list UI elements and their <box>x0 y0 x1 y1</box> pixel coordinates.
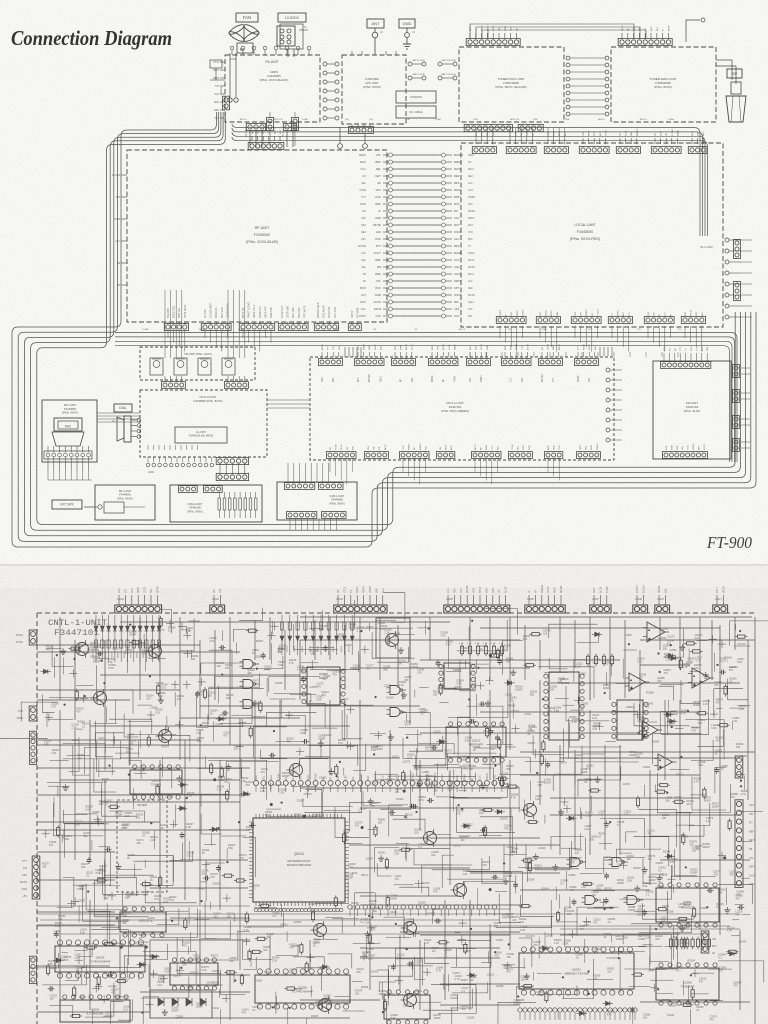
wire <box>275 992 277 1015</box>
wire <box>515 875 517 894</box>
resistor <box>693 909 696 917</box>
ground <box>644 867 646 870</box>
resistor <box>524 985 532 988</box>
wire <box>309 940 311 970</box>
wire <box>200 1017 350 1019</box>
wire <box>229 617 231 745</box>
bundle CNTL-U to CON-1 <box>287 463 289 483</box>
svg-text:CTL3: CTL3 <box>343 586 346 593</box>
svg-text:BPF: BPF <box>432 345 434 350</box>
svg-text:1000P: 1000P <box>690 872 698 875</box>
capacitor <box>391 965 396 967</box>
svg-text:TX3: TX3 <box>215 86 220 88</box>
svg-text:12BL: 12BL <box>533 119 539 121</box>
svg-text:(J7): (J7) <box>678 329 682 331</box>
svg-text:R2076: R2076 <box>559 762 567 765</box>
wire <box>360 947 500 949</box>
wire <box>580 833 582 849</box>
svg-text:DAT: DAT <box>215 93 220 96</box>
svg-text:Q2065: Q2065 <box>432 908 440 911</box>
wire <box>254 907 277 909</box>
diode <box>580 1011 584 1015</box>
wire <box>498 1002 536 1024</box>
resistor <box>691 990 694 998</box>
svg-text:C2032: C2032 <box>667 1014 675 1017</box>
svg-text:10K: 10K <box>125 896 130 899</box>
wire <box>221 835 246 837</box>
wire <box>63 829 65 839</box>
wire <box>219 760 221 910</box>
svg-text:47U: 47U <box>333 674 338 677</box>
wire <box>489 690 491 780</box>
svg-text:10K: 10K <box>136 842 141 845</box>
svg-text:F3445000: F3445000 <box>577 230 593 234</box>
svg-text:5.6K: 5.6K <box>446 644 451 647</box>
svg-text:KEY3: KEY3 <box>443 344 445 350</box>
RF to LOCAL wires <box>393 154 441 156</box>
wire <box>276 944 298 955</box>
wire <box>406 734 422 736</box>
svg-text:ACC0: ACC0 <box>374 300 382 304</box>
keyer dashed box <box>117 800 167 892</box>
svg-text:Q2023: Q2023 <box>280 923 288 926</box>
wire <box>640 1001 750 1003</box>
wire <box>306 703 325 728</box>
diode ladder under J2002 <box>95 615 97 662</box>
ground <box>117 863 119 866</box>
svg-text:PTT: PTT <box>578 345 580 350</box>
svg-text:47U: 47U <box>177 698 182 701</box>
wire <box>545 758 547 775</box>
wire <box>730 707 745 709</box>
svg-text:1K: 1K <box>161 827 164 830</box>
LOCAL right wires to loop <box>741 239 752 241</box>
svg-text:C2080: C2080 <box>568 874 576 877</box>
svg-text:5.6K: 5.6K <box>290 971 295 974</box>
wire <box>606 958 620 993</box>
svg-text:470: 470 <box>79 888 84 891</box>
svg-text:REF: REF <box>454 174 460 178</box>
svg-text:MB89363 T.EX.8W: MB89363 T.EX.8W <box>564 972 589 976</box>
wire <box>269 935 271 970</box>
wire <box>153 830 155 850</box>
wire <box>639 650 641 720</box>
svg-text:0.01: 0.01 <box>196 732 201 735</box>
svg-text:OSC: OSC <box>476 345 478 350</box>
svg-text:L2010: L2010 <box>434 731 442 734</box>
wire <box>499 894 521 923</box>
svg-text:CTL: CTL <box>376 153 382 157</box>
svg-text:DET: DET <box>375 174 381 178</box>
svg-text:(J7): (J7) <box>637 329 641 331</box>
capacitor <box>513 883 518 885</box>
connector J2008 <box>633 605 648 613</box>
svg-text:470: 470 <box>404 724 409 727</box>
wire <box>350 667 530 669</box>
wire <box>666 716 668 734</box>
wire <box>649 825 704 836</box>
svg-text:5.6K: 5.6K <box>186 630 191 633</box>
svg-text:OSC4: OSC4 <box>468 252 475 255</box>
svg-text:KEY: KEY <box>521 131 523 136</box>
svg-text:33K: 33K <box>523 638 528 641</box>
wire <box>502 964 516 966</box>
svg-text:0.1: 0.1 <box>560 883 564 886</box>
wire <box>166 910 189 912</box>
wires local bottom to cntl-u top <box>469 352 471 357</box>
wire <box>526 935 535 937</box>
svg-text:LAN/TUN SUB: LAN/TUN SUB <box>441 59 456 62</box>
wire <box>622 659 624 679</box>
wire <box>439 701 449 703</box>
wire <box>589 710 591 855</box>
ground <box>658 875 660 878</box>
svg-text:100: 100 <box>75 957 80 960</box>
wire <box>529 781 531 801</box>
svg-text:C2057: C2057 <box>662 999 670 1002</box>
svg-text:1K: 1K <box>366 667 369 670</box>
wire <box>504 853 527 855</box>
svg-text:OSC: OSC <box>375 237 381 241</box>
wire <box>448 679 508 717</box>
svg-text:COAX: COAX <box>435 118 442 121</box>
svg-text:SEL7: SEL7 <box>468 175 475 178</box>
svg-text:5.6K: 5.6K <box>554 709 559 712</box>
svg-text:4.7K: 4.7K <box>289 662 294 665</box>
wire <box>609 617 611 700</box>
wire <box>688 649 690 661</box>
svg-text:CLK: CLK <box>447 588 450 593</box>
svg-text:1000P: 1000P <box>301 670 309 673</box>
wire <box>371 961 413 976</box>
svg-text:2.2K: 2.2K <box>624 814 629 817</box>
resistor <box>118 980 126 983</box>
wire <box>145 651 147 671</box>
svg-text:KEY: KEY <box>118 588 121 593</box>
diode <box>180 806 184 810</box>
svg-text:2.2K: 2.2K <box>108 661 113 664</box>
wire <box>413 735 446 766</box>
wire <box>469 617 471 725</box>
wire <box>430 749 442 751</box>
RF-UNIT right edge stubs <box>383 154 388 156</box>
svg-text:470: 470 <box>272 915 277 918</box>
svg-text:D2042: D2042 <box>739 941 747 944</box>
svg-text:SB: SB <box>749 848 753 851</box>
svg-text:10K: 10K <box>229 960 234 963</box>
resistor <box>257 937 265 940</box>
wire <box>90 725 350 727</box>
svg-text:10K: 10K <box>672 936 677 939</box>
svg-text:GND: GND <box>375 293 381 297</box>
wire <box>324 1000 351 1002</box>
IC Q2010 <box>549 672 579 740</box>
svg-text:0.1: 0.1 <box>718 956 722 959</box>
svg-text:PTT: PTT <box>328 345 330 350</box>
wire <box>182 938 184 946</box>
wire <box>53 803 103 836</box>
wire <box>368 829 378 831</box>
svg-text:MOD4: MOD4 <box>658 585 661 593</box>
wire <box>59 940 61 1000</box>
svg-text:10K: 10K <box>623 936 628 939</box>
wire <box>46 647 62 649</box>
capacitor <box>180 834 185 836</box>
wire <box>74 730 76 860</box>
wire <box>75 959 83 961</box>
svg-text:5.6K: 5.6K <box>55 925 60 928</box>
svg-text:RX: RX <box>468 161 472 164</box>
wire <box>661 699 709 735</box>
svg-text:1K: 1K <box>87 652 90 655</box>
svg-text:470: 470 <box>494 925 499 928</box>
svg-text:1000P: 1000P <box>318 737 326 740</box>
NAND gate Q2009b <box>390 708 400 717</box>
svg-text:470: 470 <box>710 1019 715 1022</box>
svg-text:DIAL: DIAL <box>119 406 127 410</box>
wire <box>586 989 588 997</box>
wire <box>372 632 414 658</box>
svg-text:(P/No. 96XX): (P/No. 96XX) <box>329 501 344 505</box>
svg-text:4.7K: 4.7K <box>456 682 461 685</box>
wire <box>97 877 136 896</box>
svg-text:MUTE3: MUTE3 <box>358 245 367 248</box>
svg-text:D2017: D2017 <box>155 910 163 913</box>
svg-text:T8 J: T8 J <box>283 133 285 137</box>
wire <box>91 840 93 850</box>
svg-text:13.5V1: 13.5V1 <box>642 584 645 593</box>
wire <box>548 739 570 741</box>
wire <box>353 744 366 771</box>
resistor <box>720 724 728 727</box>
wire <box>454 769 502 798</box>
svg-text:TC74HC4094AF: TC74HC4094AF <box>89 960 111 964</box>
svg-text:D2006: D2006 <box>386 697 394 700</box>
svg-text:SEL8: SEL8 <box>375 344 377 350</box>
wire <box>379 982 395 991</box>
wire <box>690 794 705 796</box>
resistor <box>156 786 159 794</box>
wire <box>718 855 726 857</box>
wire <box>393 819 425 833</box>
wire <box>74 646 76 664</box>
resistor <box>57 828 60 836</box>
wire <box>452 982 488 993</box>
connector bundle CNTL-D to CON-2 <box>216 457 248 464</box>
unit block SP-J-UNIT <box>95 485 155 520</box>
svg-text:47U: 47U <box>547 710 552 713</box>
IC Q2008 <box>307 667 340 705</box>
svg-text:100: 100 <box>461 1008 466 1011</box>
svg-text:10K: 10K <box>75 823 80 826</box>
wire <box>199 730 201 905</box>
wire <box>440 1004 520 1006</box>
wire <box>610 663 612 676</box>
svg-text:0.1: 0.1 <box>646 705 650 708</box>
wire <box>376 771 432 780</box>
svg-text:100: 100 <box>513 1002 518 1005</box>
svg-text:GND: GND <box>661 131 663 136</box>
wire <box>714 653 716 672</box>
wire <box>377 863 391 876</box>
wire <box>377 647 409 662</box>
resistor <box>335 766 338 774</box>
wire harness bundle C lower horizontal <box>115 333 737 463</box>
svg-text:100: 100 <box>414 768 419 771</box>
wire <box>432 856 490 870</box>
wire <box>486 680 494 682</box>
svg-text:1000P: 1000P <box>712 805 720 808</box>
wire <box>94 891 123 915</box>
wire <box>518 841 572 867</box>
svg-text:470: 470 <box>456 812 461 815</box>
wire <box>178 626 186 628</box>
IC Q2013 <box>446 727 506 757</box>
wire <box>415 1001 441 1003</box>
wire <box>177 938 221 974</box>
svg-text:470: 470 <box>395 878 400 881</box>
resistor <box>528 863 531 871</box>
wire <box>480 627 720 629</box>
wire <box>565 871 567 889</box>
svg-text:SB8: SB8 <box>375 588 378 593</box>
diode <box>543 946 547 950</box>
CNTL-U right edge connectors <box>606 368 610 372</box>
svg-text:ACC REF: ACC REF <box>292 307 295 318</box>
NAND gate Q2009a <box>390 686 400 695</box>
svg-text:4.7K: 4.7K <box>418 799 423 802</box>
svg-text:KEY5: KEY5 <box>551 310 553 316</box>
resistor <box>259 703 262 711</box>
svg-text:100: 100 <box>517 1002 522 1005</box>
diode <box>497 810 501 814</box>
wire <box>293 957 324 970</box>
svg-text:MICROCOMPUTER: MICROCOMPUTER <box>287 863 311 867</box>
diode <box>440 740 444 744</box>
wire <box>264 668 271 670</box>
svg-text:1K: 1K <box>294 817 297 820</box>
wire <box>141 977 189 998</box>
wire <box>470 871 510 910</box>
resistor <box>542 742 545 750</box>
svg-text:VR: VR <box>666 133 668 136</box>
svg-text:CLK: CLK <box>454 258 460 262</box>
svg-text:1K: 1K <box>405 816 408 819</box>
wire <box>161 768 171 789</box>
wire <box>503 640 523 674</box>
svg-text:F3446665 (P/No. 8XXX): F3446665 (P/No. 8XXX) <box>194 399 223 403</box>
svg-text:MEM: MEM <box>369 345 371 350</box>
svg-text:LAN/15 SUB: LAN/15 SUB <box>412 59 425 62</box>
svg-text:33K: 33K <box>433 693 438 696</box>
TUNER-CNTL top connector <box>466 38 520 45</box>
svg-text:Q2025: Q2025 <box>139 919 148 923</box>
svg-text:ALC4: ALC4 <box>474 444 477 450</box>
svg-text:RX: RX <box>363 175 367 178</box>
wire <box>512 728 520 730</box>
wire <box>415 883 423 885</box>
svg-text:5.6K: 5.6K <box>397 957 402 960</box>
svg-text:DAT: DAT <box>300 775 303 780</box>
svg-text:1K: 1K <box>473 749 476 752</box>
svg-text:BPF: BPF <box>376 160 382 164</box>
svg-text:VCC: VCC <box>749 804 754 807</box>
svg-text:TUN: TUN <box>688 445 690 450</box>
svg-text:SW3: SW3 <box>523 444 525 450</box>
svg-text:MOD: MOD <box>554 587 557 593</box>
diode <box>244 792 248 796</box>
resistor <box>252 950 260 953</box>
wire <box>220 688 252 724</box>
svg-text:1000P: 1000P <box>702 846 710 849</box>
wire <box>481 962 492 964</box>
diode <box>507 681 511 685</box>
svg-text:SB1 FAN: SB1 FAN <box>298 308 301 318</box>
wire <box>134 864 136 879</box>
svg-text:VR: VR <box>117 285 121 287</box>
wire <box>612 710 637 712</box>
wire <box>272 784 285 786</box>
svg-text:F3250000: F3250000 <box>254 233 270 237</box>
svg-text:OSC: OSC <box>375 286 381 290</box>
svg-text:-: - <box>649 628 650 632</box>
svg-text:D2087: D2087 <box>213 883 221 886</box>
svg-text:5.6K: 5.6K <box>44 742 49 745</box>
svg-text:1K: 1K <box>323 678 326 681</box>
wire <box>360 956 368 958</box>
svg-text:(J7): (J7) <box>588 329 592 331</box>
svg-text:AF TX0: AF TX0 <box>204 309 207 318</box>
svg-text:(P/No. 9XXX): (P/No. 9XXX) <box>117 496 133 500</box>
svg-text:RX0: RX0 <box>454 202 460 206</box>
svg-text:4.7K: 4.7K <box>459 643 464 645</box>
wire <box>593 890 615 892</box>
ground <box>62 648 64 651</box>
svg-text:VR-UNIT (P/No. 92XX): VR-UNIT (P/No. 92XX) <box>184 352 212 356</box>
svg-text:MUTE: MUTE <box>468 294 475 297</box>
wire <box>234 914 236 922</box>
resistor <box>249 728 252 736</box>
wire <box>418 744 454 755</box>
wire <box>111 739 119 741</box>
wire <box>197 692 209 728</box>
wire <box>252 686 265 717</box>
svg-text:4.7K: 4.7K <box>148 920 153 923</box>
wire <box>233 972 235 983</box>
wire <box>657 993 673 995</box>
wire <box>689 813 691 832</box>
svg-text:KEY: KEY <box>664 346 666 351</box>
wire <box>201 663 243 674</box>
svg-text:1000P: 1000P <box>460 758 468 761</box>
wires TUNER-CNTL to TUNER-MAIN <box>566 56 570 60</box>
wire <box>648 970 654 972</box>
svg-text:47U: 47U <box>698 722 703 725</box>
svg-text:BAND AF: BAND AF <box>215 307 218 318</box>
wire <box>290 693 317 695</box>
resistor <box>500 778 503 786</box>
resistor <box>545 993 548 1001</box>
svg-text:0.01: 0.01 <box>141 944 146 947</box>
svg-text:BPF VDD: BPF VDD <box>221 307 224 318</box>
svg-text:MIC: MIC <box>22 874 27 877</box>
wire <box>387 635 389 645</box>
svg-text:100: 100 <box>463 873 468 876</box>
wire <box>29 943 84 968</box>
wire <box>649 721 657 723</box>
svg-text:10K: 10K <box>123 915 128 918</box>
svg-text:10K: 10K <box>386 782 391 785</box>
